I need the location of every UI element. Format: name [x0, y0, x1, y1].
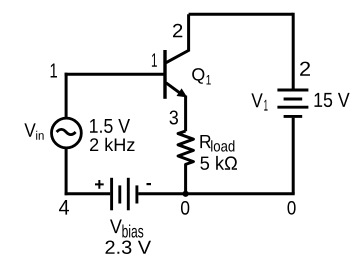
wire top rail from collector to V1 battery: [189, 13, 294, 16]
wire emitter vertical (node 3 to Rload): [184, 96, 187, 132]
label node 1 (base): [152, 53, 157, 66]
wire left vertical upper (node 1 to Vin): [65, 73, 68, 118]
battery V1 plate short: [284, 98, 303, 101]
source Vin sine wave: [57, 129, 76, 134]
wire right vertical lower (battery to node 0): [292, 118, 295, 194]
label Q1 letter: [192, 68, 204, 84]
label 5 kOhm: [200, 156, 237, 170]
wire left vertical lower (Vin to node 4 corner): [65, 148, 68, 195]
label Rload subscript: [211, 140, 234, 151]
battery Vbias plate tall: [127, 178, 130, 211]
label node 4: [59, 200, 69, 215]
label Rload letter: [200, 135, 210, 148]
battery Vbias plate short: [118, 185, 121, 203]
label Vin subscript: [36, 131, 43, 140]
transistor Q1 collector lead + wire to top rail: [166, 14, 189, 63]
label node 2 (collector): [173, 24, 182, 37]
label - polarity of Vbias: [147, 183, 152, 185]
label V1 subscript: [264, 100, 267, 111]
label + polarity of Vbias: [95, 180, 104, 189]
transistor Q1 base bar: [163, 50, 166, 99]
source Vin circle: [52, 118, 82, 148]
resistor Rload zigzag: [178, 131, 193, 194]
battery Vbias plate tall left (+): [110, 178, 113, 211]
battery V1 plate long top: [277, 89, 308, 92]
label node 3 (emitter): [170, 111, 179, 125]
transistor Q1 emitter lead: [166, 83, 182, 94]
wire bottom rail right (node 0 region): [138, 192, 294, 195]
label Vbias subscript: [122, 225, 143, 238]
label Vin letter: [24, 123, 35, 136]
label Q1 subscript: [207, 75, 211, 85]
label 2 kHz: [90, 138, 135, 151]
wire right vertical upper (node 2 to battery top): [292, 13, 295, 89]
label node 1 (left): [51, 64, 57, 78]
wire bottom rail left (node 4): [65, 192, 111, 195]
battery V1 plate short bottom: [284, 115, 303, 118]
label node 2 (battery top): [300, 62, 310, 76]
battery V1 plate long: [277, 106, 308, 109]
junction node 0 dot: [183, 191, 189, 197]
label V1 letter: [251, 93, 262, 107]
transistor Q1 emitter arrowhead: [177, 88, 188, 97]
label node 0 (center): [181, 201, 189, 215]
wire base (node 1 to Q1 base): [65, 73, 164, 76]
battery Vbias plate short right (-): [135, 185, 138, 203]
label Vbias letter: [110, 220, 122, 234]
label 2.3 V: [106, 241, 152, 255]
label 1.5 V: [90, 119, 130, 133]
label 15 V: [315, 93, 350, 107]
label node 0 (right): [288, 201, 296, 215]
